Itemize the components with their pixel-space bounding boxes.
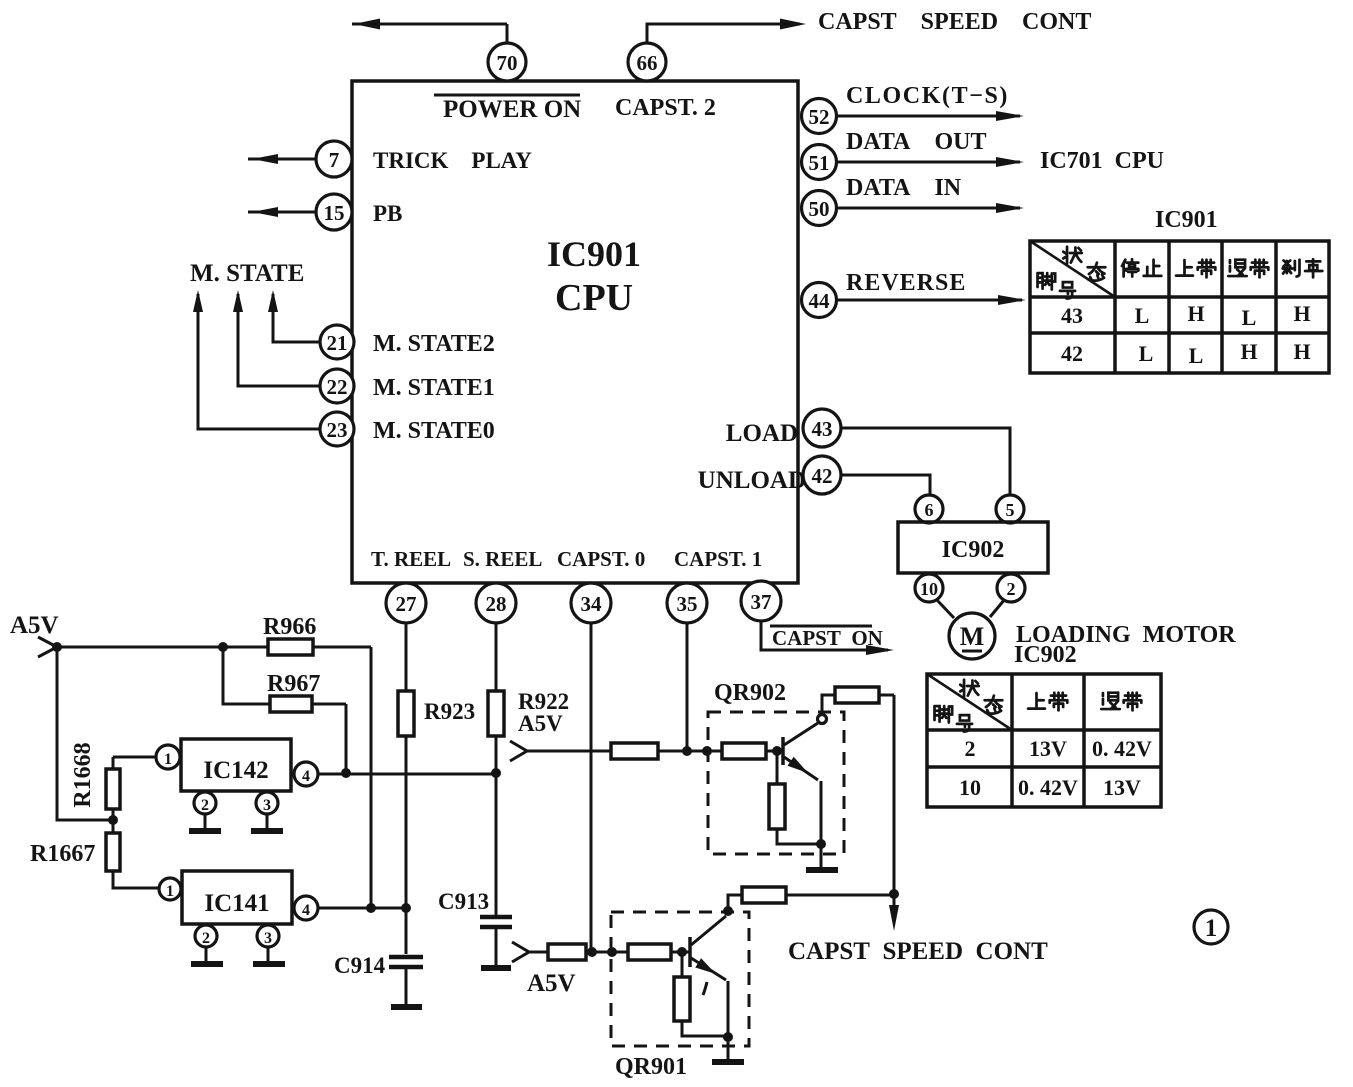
svg-text:35: 35 (677, 592, 698, 616)
svg-text:7: 7 (329, 148, 340, 172)
svg-text:CAPST. 1: CAPST. 1 (674, 547, 762, 571)
svg-text:H: H (1187, 301, 1204, 326)
svg-text:10: 10 (920, 579, 938, 599)
svg-text:M. STATE0: M. STATE0 (373, 418, 495, 444)
svg-text:CAPST SPEED CONT: CAPST SPEED CONT (818, 9, 1091, 35)
svg-text:TRICK PLAY: TRICK PLAY (373, 148, 532, 173)
svg-text:2: 2 (201, 797, 209, 814)
svg-text:REVERSE: REVERSE (846, 270, 966, 296)
svg-text:6: 6 (925, 500, 934, 520)
svg-text:52: 52 (809, 105, 830, 129)
svg-text:22: 22 (327, 375, 348, 399)
svg-text:H: H (1293, 301, 1310, 326)
svg-text:A5V: A5V (527, 970, 576, 997)
svg-text:0. 42V: 0. 42V (1092, 736, 1152, 761)
svg-text:CAPST. 0: CAPST. 0 (557, 547, 645, 571)
svg-text:L: L (1242, 305, 1257, 330)
svg-text:IC142: IC142 (203, 757, 268, 784)
svg-text:CLOCK(T−S): CLOCK(T−S) (846, 83, 1009, 109)
svg-text:M. STATE: M. STATE (190, 260, 304, 287)
svg-text:27: 27 (396, 592, 417, 616)
svg-text:T. REEL: T. REEL (371, 547, 451, 571)
svg-text:2: 2 (965, 736, 976, 761)
svg-text:15: 15 (324, 201, 345, 225)
svg-text:51: 51 (809, 151, 830, 175)
svg-text:0. 42V: 0. 42V (1018, 775, 1078, 800)
svg-text:DATA IN: DATA IN (846, 175, 962, 201)
svg-text:CAPST. 2: CAPST. 2 (615, 95, 716, 121)
svg-text:66: 66 (637, 51, 658, 75)
svg-text:1: 1 (1205, 915, 1218, 942)
svg-text:PB: PB (373, 201, 402, 226)
svg-text:37: 37 (751, 590, 772, 614)
svg-text:3: 3 (263, 797, 271, 814)
svg-text:34: 34 (581, 592, 603, 616)
svg-text:POWER ON: POWER ON (443, 96, 581, 123)
svg-text:QR902: QR902 (714, 680, 786, 706)
svg-text:4: 4 (302, 902, 310, 919)
svg-text:1: 1 (164, 751, 172, 768)
svg-text:L: L (1139, 341, 1154, 366)
svg-text:L: L (1189, 343, 1204, 368)
svg-text:LOAD: LOAD (726, 420, 798, 447)
svg-text:C914: C914 (334, 953, 386, 978)
svg-text:CAPST SPEED CONT: CAPST SPEED CONT (788, 938, 1048, 965)
svg-text:H: H (1240, 339, 1257, 364)
svg-text:2: 2 (1007, 579, 1016, 599)
svg-text:5: 5 (1006, 500, 1015, 520)
svg-text:44: 44 (809, 289, 831, 313)
svg-text:IC141: IC141 (204, 890, 269, 917)
svg-text:S. REEL: S. REEL (463, 547, 542, 571)
svg-text:IC902: IC902 (942, 537, 1005, 563)
svg-text:DATA OUT: DATA OUT (846, 129, 986, 155)
svg-text:R923: R923 (424, 699, 475, 724)
svg-text:M. STATE2: M. STATE2 (373, 331, 495, 357)
svg-text:42: 42 (812, 464, 833, 488)
svg-text:IC901: IC901 (547, 234, 641, 274)
svg-text:R1668: R1668 (70, 742, 96, 807)
svg-text:UNLOAD: UNLOAD (698, 467, 806, 494)
svg-text:28: 28 (486, 592, 507, 616)
svg-text:IC701 CPU: IC701 CPU (1040, 148, 1164, 174)
svg-text:M: M (960, 622, 985, 651)
svg-text:1: 1 (166, 883, 174, 900)
svg-text:L: L (1135, 303, 1150, 328)
svg-text:3: 3 (264, 930, 272, 947)
svg-text:50: 50 (809, 197, 830, 221)
svg-text:R1667: R1667 (30, 841, 95, 867)
svg-text:QR901: QR901 (615, 1054, 687, 1080)
svg-text:M. STATE1: M. STATE1 (373, 375, 495, 401)
svg-text:R966: R966 (263, 614, 316, 640)
svg-text:IC901: IC901 (1155, 207, 1218, 233)
svg-text:H: H (1293, 339, 1310, 364)
svg-text:70: 70 (497, 51, 518, 75)
svg-text:21: 21 (327, 331, 348, 355)
svg-text:A5V: A5V (518, 711, 563, 736)
svg-text:42: 42 (1061, 341, 1083, 366)
svg-text:13V: 13V (1103, 775, 1141, 800)
svg-text:2: 2 (202, 930, 210, 947)
svg-text:A5V: A5V (10, 612, 59, 639)
svg-text:R967: R967 (267, 671, 320, 697)
svg-text:CAPST ON: CAPST ON (772, 626, 883, 650)
svg-text:23: 23 (327, 418, 348, 442)
svg-text:43: 43 (812, 417, 833, 441)
svg-text:43: 43 (1061, 303, 1083, 328)
svg-text:CPU: CPU (555, 277, 633, 319)
svg-text:4: 4 (302, 768, 310, 785)
svg-text:13V: 13V (1029, 736, 1067, 761)
svg-text:C913: C913 (438, 889, 489, 914)
svg-text:IC902: IC902 (1014, 642, 1077, 668)
svg-text:10: 10 (959, 775, 981, 800)
